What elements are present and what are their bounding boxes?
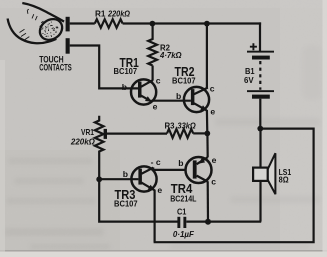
svg-text:CONTACTS: CONTACTS xyxy=(39,63,71,73)
svg-text:R3: R3 xyxy=(165,120,175,130)
wire: node down to speaker xyxy=(259,129,261,168)
wire: TR4 collector down to C1 node xyxy=(207,181,210,221)
svg-text:c: c xyxy=(210,83,215,93)
svg-text:b: b xyxy=(122,82,127,92)
wire: battery to lower node xyxy=(259,99,261,129)
wire: TR3 collector to TR4 base xyxy=(153,167,186,170)
wire: top contact to R1 xyxy=(70,22,95,24)
svg-text:e: e xyxy=(210,107,215,117)
svg-text:b: b xyxy=(123,169,128,179)
wire: top supply rail xyxy=(123,22,262,24)
svg-text:C1: C1 xyxy=(177,207,187,217)
VR1 wiper bar xyxy=(104,129,107,139)
svg-text:6V: 6V xyxy=(244,75,254,85)
wire: negative return loop right side xyxy=(154,129,314,243)
svg-text:4·7kΩ: 4·7kΩ xyxy=(159,50,182,60)
svg-text:c: c xyxy=(156,75,161,85)
finger touching contacts xyxy=(8,3,67,44)
transistor TR4 xyxy=(186,157,212,183)
wire: TR2 emitter down to R3 node xyxy=(206,110,209,133)
variable resistor VR1 xyxy=(95,116,104,179)
wire: R3 to junction xyxy=(193,132,207,134)
svg-text:e: e xyxy=(153,101,158,111)
svg-text:8Ω: 8Ω xyxy=(279,175,289,185)
svg-text:BC107: BC107 xyxy=(114,198,138,208)
wire: bottom contact to TR1 base xyxy=(70,46,139,89)
wire: speaker bottom leg xyxy=(259,180,261,222)
node: battery negative junction xyxy=(257,126,263,132)
svg-text:220kΩ: 220kΩ xyxy=(70,137,95,147)
svg-text:b: b xyxy=(176,91,181,101)
svg-text:b: b xyxy=(178,158,183,168)
wire: R2 to TR1 collector xyxy=(152,66,154,81)
wire: VR1 wiper to R3 xyxy=(107,133,167,135)
node: R3 / TR2e / TR4e junction xyxy=(204,131,210,137)
capacitor C1 plates xyxy=(177,217,180,228)
svg-text:BC214L: BC214L xyxy=(170,194,196,204)
svg-text:e: e xyxy=(212,155,217,165)
touch contact top bar xyxy=(66,17,70,32)
node: C1 / TR4 collector junction xyxy=(205,219,211,225)
transistor TR1 xyxy=(131,79,156,104)
svg-text:BC107: BC107 xyxy=(114,66,138,76)
node: TR2 collector junction xyxy=(204,21,210,27)
transistor TR2 xyxy=(184,87,209,112)
wire: VR1 node down and along to C1 xyxy=(99,179,177,221)
svg-text:- c: - c xyxy=(151,157,161,167)
svg-text:33kΩ: 33kΩ xyxy=(177,120,196,130)
node: VR1 / TR3 base junction xyxy=(96,176,102,182)
battery plus sign xyxy=(250,43,257,50)
wire: TR2 collector to rail xyxy=(206,24,208,89)
svg-text:R1: R1 xyxy=(95,9,106,19)
wire: rail down to battery xyxy=(259,22,261,51)
svg-text:0·1µF: 0·1µF xyxy=(173,229,195,239)
wire: C1 right to speaker leg xyxy=(186,221,261,223)
svg-text:220kΩ: 220kΩ xyxy=(107,9,130,19)
wire: TR1 emitter to TR2 base xyxy=(151,100,191,102)
svg-text:VR1: VR1 xyxy=(81,127,94,137)
touch contact bottom bar xyxy=(66,38,70,54)
svg-text:c: c xyxy=(211,176,216,186)
battery B1 xyxy=(247,22,274,128)
paper bottom edge shadow xyxy=(0,250,327,252)
wire: TR3 emitter down to bottom rail xyxy=(154,190,156,243)
wire: junction to TR3 base xyxy=(99,178,138,180)
svg-text:e: e xyxy=(157,185,162,195)
node: R1/R2 junction xyxy=(150,21,156,27)
speaker LS1 xyxy=(253,153,275,194)
resistor R1 xyxy=(95,19,123,28)
resistor R3 xyxy=(167,129,193,138)
wire: TR4 emitter up to junction xyxy=(206,133,209,157)
transistor TR3 xyxy=(131,166,156,191)
svg-text:BC107: BC107 xyxy=(172,76,196,86)
resistor R2 xyxy=(148,24,157,66)
